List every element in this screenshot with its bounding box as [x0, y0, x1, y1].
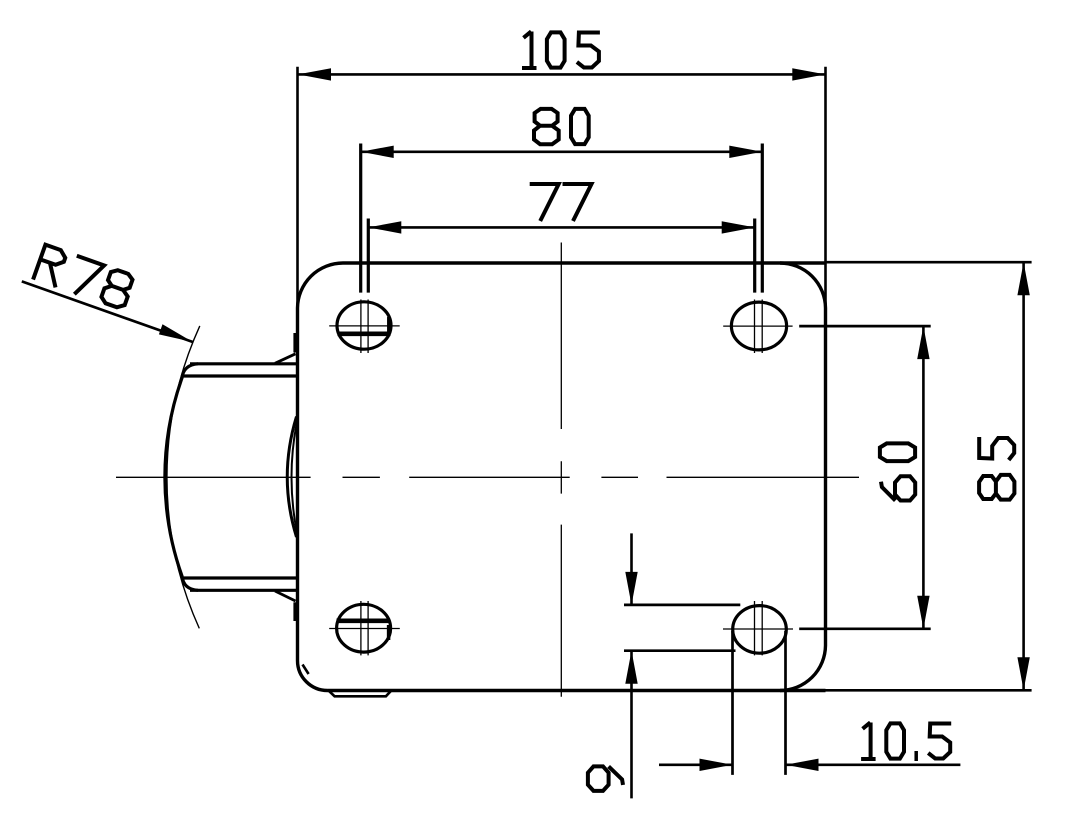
ext lines [624, 605, 740, 651]
edge tick top [293, 333, 298, 353]
hole bottom-left slot chord [337, 618, 391, 623]
dim line [361, 151, 763, 154]
plate right edge [824, 308, 827, 646]
hub lens outer arc [287, 417, 296, 538]
hole crosshair bottom-right [723, 601, 793, 655]
arrows [700, 759, 819, 771]
fork diagonal top [275, 354, 296, 364]
top-left corner arc [298, 263, 344, 308]
hole bottom-right [733, 606, 787, 654]
text 10.5 [861, 722, 951, 761]
leader line [22, 281, 193, 342]
plate left edge [296, 308, 299, 661]
wheel bottom band [182, 578, 297, 590]
hole crosshair top-right [723, 300, 792, 354]
arrows [368, 221, 754, 233]
dim line [1022, 262, 1025, 690]
R78 thin arc [167, 326, 200, 629]
hole top-right [731, 302, 786, 350]
hub lens inner arc [292, 424, 297, 531]
corner tick bottom-left [303, 665, 309, 675]
leader arrow [159, 324, 193, 342]
ext line left [296, 67, 299, 308]
dim line segments [659, 763, 960, 766]
bottom-left corner arc [298, 661, 329, 691]
dim line [298, 73, 825, 76]
hole bottom-left thick right edge [387, 625, 391, 640]
bottom-right corner arc [780, 646, 826, 691]
dim line segments [630, 533, 633, 798]
edge tick bottom [293, 602, 298, 621]
hole bottom-left [337, 604, 391, 652]
text 77 [530, 184, 592, 221]
text 105 [522, 31, 600, 68]
fork diagonal bottom [275, 591, 296, 601]
ext stubs [368, 219, 754, 293]
dim line [368, 226, 754, 229]
fork bottom plate below plate edge [328, 690, 392, 696]
ext stubs [799, 326, 931, 629]
text 80 [534, 109, 589, 144]
hole top-left thick right edge [387, 317, 391, 332]
hole top-left [337, 302, 391, 349]
wheel top band [182, 364, 297, 376]
top-right corner arc [780, 263, 826, 308]
arrows [361, 146, 763, 158]
hole crosshair bottom-left [329, 601, 400, 655]
plate top edge (with 85 extension to the right) [343, 261, 826, 264]
text R78 (rotated 19.5deg) [33, 245, 135, 312]
arrows [298, 68, 825, 80]
wheel barrel silhouette arc [165, 364, 198, 591]
arrows [917, 326, 929, 629]
text 60 (rotated) [880, 443, 915, 500]
hole crosshair top-left [329, 300, 400, 354]
horizontal centerline (dash-dot) [116, 476, 859, 478]
plate bottom edge (with 85 extension to the right) [328, 689, 826, 692]
arrows [1017, 262, 1029, 690]
ext stubs [361, 144, 763, 293]
dim line [922, 326, 925, 629]
ext line right [824, 67, 827, 308]
vertical centerline (dash-dot) [560, 243, 562, 697]
text 85 (rotated) [979, 437, 1014, 500]
ext lines [733, 631, 786, 775]
text 9 (rotated) [588, 766, 623, 791]
arrows [625, 572, 637, 684]
hole top-left slot chord [338, 331, 391, 336]
